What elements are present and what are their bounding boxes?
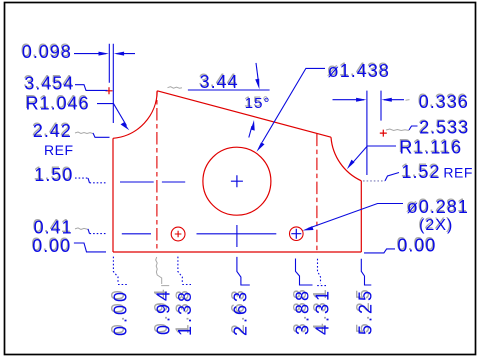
small hole left dia 0.281 (171, 227, 185, 241)
svg-text:REF: REF (443, 165, 473, 181)
dim 1.50 leader (dotted) (75, 177, 88, 179)
dim 2.533 leader (gray squiggle + blue step) (386, 129, 409, 131)
top sloping edge 15deg (157, 91, 331, 137)
part outline: right edge (360, 181, 362, 252)
small hole right dia 0.281 (290, 227, 304, 241)
dim R1.046 leader + arrow (97, 104, 127, 126)
center hole circle dia 1.438 (203, 147, 271, 215)
part outline: bottom edge (113, 251, 361, 253)
dia 1.438 leader + arrow (262, 68, 325, 142)
svg-text:2.533: 2.533 (419, 118, 469, 138)
svg-text:3.454: 3.454 (24, 73, 74, 93)
svg-text:0.00: 0.00 (32, 236, 71, 256)
dim 0.336 dimension lines + arrows (333, 99, 405, 101)
svg-text:ø0.281: ø0.281 (407, 197, 469, 217)
vertical centerline below big hole (236, 225, 238, 247)
svg-text:0.336: 0.336 (419, 92, 469, 112)
dim 0.00 left leader (74, 243, 106, 252)
small hole right center mark (291, 229, 301, 239)
ordinate leader x=178 (1.38, dotted) (178, 257, 191, 285)
svg-text:4.31: 4.31 (312, 288, 332, 335)
red dashed centerline at x=157 (156, 92, 158, 253)
dim 3.454 leader (75, 85, 108, 91)
angular dim small arrow up to slope (249, 126, 252, 138)
svg-text:R1.046: R1.046 (26, 93, 90, 113)
svg-text:(2X): (2X) (419, 217, 453, 234)
dim 2.42 REF leader (gray squiggle + blue) (75, 132, 93, 134)
dia 0.281 leader + arrow (308, 204, 403, 229)
ordinate leader x=361.3 (5.25, solid) (361, 259, 371, 285)
dim 3.44 line (188, 89, 270, 91)
dim R1.116 leader + arrow (351, 146, 397, 165)
svg-text:2.42: 2.42 (33, 121, 72, 141)
dim 0.41 leader (gray squiggle + dotted) (75, 228, 88, 230)
right fillet arc R1.116 (331, 137, 361, 181)
arc center mark right (red cross) (380, 130, 387, 137)
arc center mark left (red cross) (106, 87, 113, 94)
big hole center mark (blue cross) (231, 175, 243, 187)
dim 0.098 dimension lines + arrows (74, 53, 135, 55)
svg-text:0.098: 0.098 (22, 42, 72, 62)
dim 0.00 right leader (364, 249, 395, 253)
horizontal centerline through small holes (122, 233, 276, 235)
small hole left center mark (175, 231, 182, 238)
dim 0.098 extension lines (109, 44, 113, 123)
dim 0.336 extension lines (367, 91, 381, 175)
svg-text:5.25: 5.25 (356, 288, 376, 335)
svg-text:REF: REF (44, 142, 74, 158)
red dashed centerline at x=317 (316, 134, 318, 252)
svg-text:1.52: 1.52 (402, 162, 441, 182)
svg-text:0.94: 0.94 (154, 288, 174, 335)
ordinate leader x=317.5 (4.31, dotted) (317, 259, 327, 286)
svg-text:0.00: 0.00 (397, 236, 436, 256)
svg-text:3.44: 3.44 (200, 72, 239, 92)
svg-text:ø1.438: ø1.438 (328, 61, 390, 81)
ordinate leader x=113 (0.00, dotted) (113, 257, 127, 285)
gray speck near 0.336 (406, 99, 410, 102)
ordinate leader x=295.5 (3.88, solid) (296, 259, 313, 286)
part outline: left edge (112, 138, 114, 252)
svg-text:1.38: 1.38 (175, 289, 195, 336)
ordinate leader x=237 (2.63, solid) (237, 257, 250, 285)
ordinate leader x=157 (0.94, gray squiggle) (156, 257, 170, 286)
svg-text:0.00: 0.00 (110, 289, 130, 336)
dim 3.44 gray squiggle (168, 87, 183, 89)
horizontal centerline through big hole (120, 181, 185, 183)
dim 1.52 REF leader (dotted squiggle) (363, 180, 385, 182)
svg-text:R1.116: R1.116 (399, 137, 462, 157)
svg-text:15°: 15° (245, 95, 271, 112)
left fillet arc R1.046 (113, 91, 157, 139)
svg-text:1.50: 1.50 (34, 165, 73, 185)
angular dim arrow down (256, 63, 258, 82)
svg-text:2.63: 2.63 (231, 289, 251, 336)
